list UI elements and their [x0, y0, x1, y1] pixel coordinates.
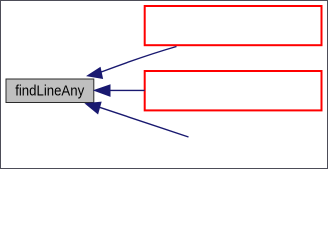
caller box (truncated) middle-right — [145, 71, 322, 110]
edge arrow from off-graph caller (bottom right) to findLineAny — [86, 102, 189, 137]
edge arrow from top caller to findLineAny — [87, 47, 176, 79]
caller box (truncated) top-right — [145, 6, 322, 45]
node findLineAny — [6, 79, 94, 103]
svg-text:findLineAny: findLineAny — [15, 84, 85, 100]
edge arrow from middle caller to findLineAny — [94, 85, 144, 96]
border frame — [1, 1, 328, 169]
